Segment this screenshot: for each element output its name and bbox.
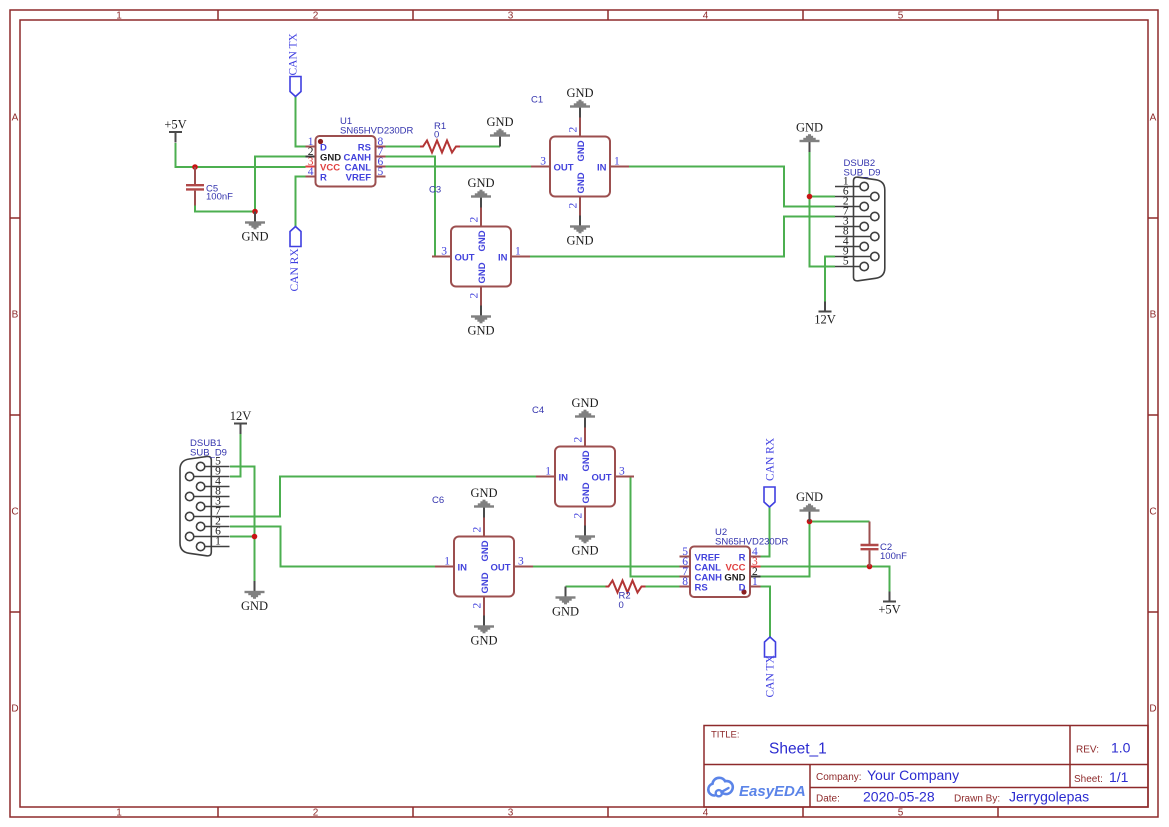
svg-text:Sheet:: Sheet: [1074,774,1103,785]
wire U1 pin 2 GND net [255,157,306,212]
ground at R1 [486,115,513,147]
sheet cell [1074,769,1129,785]
connector DSUB1 SUB_D9 [180,456,230,555]
svg-text:CAN RX: CAN RX [765,437,777,481]
filter C3 body [432,208,530,306]
svg-text:5: 5 [378,166,384,178]
svg-text:3: 3 [508,11,514,22]
wire C5 to ground node [195,205,255,212]
svg-text:D: D [1149,704,1156,715]
svg-text:GND: GND [571,544,598,558]
svg-text:0: 0 [619,600,624,611]
svg-text:4: 4 [308,166,314,178]
svg-text:100nF: 100nF [880,551,907,562]
net port CAN TX [288,33,302,97]
svg-text:GND: GND [470,634,497,648]
svg-text:2: 2 [568,127,580,133]
power +5V top [164,118,186,143]
svg-text:Your Company: Your Company [867,767,959,783]
svg-text:1: 1 [116,808,122,819]
svg-text:IN: IN [597,163,607,174]
svg-text:2: 2 [469,293,481,299]
svg-text:OUT: OUT [554,163,574,174]
svg-text:Date:: Date: [816,794,840,805]
U2 pin numbers [682,546,758,588]
ground at C4 pin 2 top [571,396,598,428]
wire DSUB1 pin 6 branch [230,536,255,538]
wire U2 pin 1 D to CAN TX [761,587,771,638]
wire U2 pin 4 R to CAN RX [761,507,770,557]
wire DSUB2 pin 6 branch [810,196,836,198]
U1 pin numbers [308,136,384,178]
svg-text:2: 2 [313,11,319,22]
svg-text:CAN RX: CAN RX [289,248,301,292]
ground at C1 pin 2 top [566,86,593,118]
wire ground net to DSUB2 pins 6 and 5 [810,152,836,267]
rev text [1076,740,1131,756]
capacitor C5 [186,167,204,206]
svg-text:1: 1 [215,536,221,548]
svg-text:4: 4 [703,808,709,819]
wire U2 pin 3 VCC to +5V [761,567,890,592]
svg-text:OUT: OUT [490,563,510,574]
company row [816,767,959,783]
transceiver U1 SN65HVD230DR [306,136,386,187]
svg-text:+5V: +5V [164,118,186,132]
svg-text:3: 3 [441,246,447,258]
junction DSUB1 pin 6 / ground [252,534,258,540]
svg-text:GND: GND [477,262,488,283]
ground at C5 [241,212,268,244]
svg-text:RS: RS [695,583,708,594]
resistor R2 [606,581,646,593]
svg-text:R: R [320,173,327,184]
svg-text:C4: C4 [532,405,544,416]
svg-text:GND: GND [576,140,587,161]
ground at C3 pin 2 bottom [467,306,494,338]
ground at C6 pin 2 top [470,486,497,518]
ground at C3 pin 2 top [467,176,494,208]
ground at C4 pin 2 bottom [571,526,598,558]
svg-text:GND: GND [552,605,579,619]
svg-text:IN: IN [498,253,508,264]
svg-text:2: 2 [472,527,484,533]
junction ground / C2 top [807,519,813,525]
svg-text:GND: GND [467,324,494,338]
filter C4 body [536,428,634,526]
svg-text:5: 5 [898,808,904,819]
DSUB1 pin numbers [215,456,221,548]
wire R2 to U2 RS [646,586,680,588]
svg-text:1: 1 [444,556,450,568]
svg-text:5: 5 [843,256,849,268]
wire C6 OUT to U2 CANL [533,566,680,568]
svg-text:2: 2 [568,203,580,209]
svg-text:2: 2 [469,217,481,223]
junction GND/DSUB2 pin 6 [807,194,813,200]
svg-text:EasyEDA: EasyEDA [739,783,806,800]
svg-text:GND: GND [480,572,491,593]
capacitor C2 [861,522,879,567]
ground at R2 [552,587,579,619]
wire ground to R2 [566,586,606,588]
value label R1 0 [434,121,446,141]
svg-text:C3: C3 [429,185,441,196]
junction VCC / C2 bottom [867,564,873,570]
wire C3 IN to DSUB2 pin 7 [530,217,835,257]
wire U2 pin 2 GND net [761,522,810,577]
ground at U2/C2 [796,490,823,522]
svg-text:C: C [11,507,18,518]
svg-text:A: A [12,113,19,124]
value label C2 100nF [880,542,907,562]
wire U1 CANH to C3 OUT [386,157,438,257]
svg-text:C: C [1149,507,1156,518]
wire U1 CANL to C1 OUT [386,166,532,168]
svg-text:Drawn By:: Drawn By: [954,794,1000,805]
junction +5V/C5/VCC [192,164,198,170]
ground at C6 pin 2 bottom [470,616,497,648]
svg-text:GND: GND [581,450,592,471]
connector DSUB2 SUB_D9 [835,177,885,281]
svg-text:GND: GND [486,115,513,129]
svg-text:SUB_D9: SUB_D9 [844,168,881,179]
svg-text:2: 2 [472,603,484,609]
svg-text:5: 5 [898,11,904,22]
net port CAN RX bottom [764,437,777,507]
svg-text:3: 3 [508,808,514,819]
svg-text:SUB_D9: SUB_D9 [190,448,227,459]
wire ground branch to C2 [810,521,870,523]
U1 reference labels [340,116,414,137]
svg-text:B: B [12,310,19,321]
wire CAN RX to U1 pin 4 [296,177,306,227]
net port CAN RX [289,227,301,292]
wire DSUB1 pin 5 to ground net [230,467,255,582]
svg-text:SN65HVD230DR: SN65HVD230DR [340,126,414,137]
svg-text:GND: GND [796,490,823,504]
svg-text:2: 2 [313,808,319,819]
svg-text:1: 1 [614,156,620,168]
svg-text:1.0: 1.0 [1111,740,1131,756]
svg-text:CAN TX: CAN TX [765,655,777,698]
svg-text:C1: C1 [531,95,543,106]
svg-text:GND: GND [566,234,593,248]
date row [816,789,1089,805]
svg-text:TITLE:: TITLE: [711,730,740,741]
EasyEDA logo [708,778,805,800]
svg-text:100nF: 100nF [206,192,233,203]
ground at DSUB1 [241,581,268,613]
power 12V at DSUB2 pin 9 [814,302,836,327]
svg-text:IN: IN [559,473,569,484]
svg-text:OUT: OUT [591,473,611,484]
svg-text:REV:: REV: [1076,745,1099,756]
svg-text:4: 4 [703,11,709,22]
svg-text:3: 3 [619,466,625,478]
svg-text:C6: C6 [432,495,444,506]
wire C4 OUT to U2 CANH [631,477,680,577]
U2 reference labels [715,527,789,548]
svg-text:Sheet_1: Sheet_1 [769,741,827,758]
svg-text:GND: GND [566,86,593,100]
svg-text:B: B [1150,310,1157,321]
svg-text:0: 0 [434,130,439,141]
svg-text:IN: IN [458,563,468,574]
svg-text:GND: GND [581,482,592,503]
wire DSUB1 pin 2 to C6 IN [230,527,436,567]
power +5V bottom [878,592,900,617]
svg-text:2: 2 [573,513,585,519]
resistor R1 [420,141,460,153]
svg-text:OUT: OUT [455,253,475,264]
svg-text:3: 3 [518,556,524,568]
wire DSUB2 pin 9 to 12V [825,257,835,302]
svg-text:D: D [11,704,18,715]
value label R2 0 [619,591,631,612]
svg-text:GND: GND [470,486,497,500]
filter C6 body [435,518,533,616]
junction C5/GND [252,209,258,215]
svg-text:VREF: VREF [346,173,372,184]
svg-text:1: 1 [116,11,122,22]
svg-text:1: 1 [515,246,521,258]
title block [704,726,1148,808]
wire R1 to ground [460,146,500,148]
svg-text:GND: GND [467,176,494,190]
wire +5V to U1 pin 3 VCC [176,143,306,167]
svg-text:2020-05-28: 2020-05-28 [863,789,935,805]
DSUB2 pin numbers [843,176,849,268]
svg-text:1/1: 1/1 [1109,769,1129,785]
svg-text:GND: GND [571,396,598,410]
DSUB1 reference labels [190,438,227,459]
ground at C1 pin 2 bottom [566,216,593,248]
power 12V at DSUB1 [230,409,252,434]
svg-text:GND: GND [241,230,268,244]
svg-text:CAN TX: CAN TX [288,33,300,76]
title text [711,730,827,758]
svg-text:2: 2 [573,437,585,443]
wire C1 IN to DSUB2 pin 2 [629,167,835,207]
ground net DSUB2 [796,121,823,153]
transceiver U2 SN65HVD230DR [680,547,761,598]
svg-text:12V: 12V [814,313,836,327]
svg-text:1: 1 [752,576,758,588]
wire CAN TX to U1 pin 1 [296,97,306,147]
svg-text:3: 3 [540,156,546,168]
wire DSUB1 pin 9 to 12V [230,434,241,477]
svg-text:D: D [739,583,746,594]
svg-text:GND: GND [480,540,491,561]
DSUB2 reference labels [844,158,881,179]
svg-text:Company:: Company: [816,772,862,783]
svg-text:12V: 12V [230,409,252,423]
svg-text:GND: GND [796,121,823,135]
svg-text:GND: GND [241,599,268,613]
svg-text:Jerrygolepas: Jerrygolepas [1009,789,1089,805]
svg-text:GND: GND [576,172,587,193]
svg-text:1: 1 [545,466,551,478]
wire DSUB1 pin 7 to C4 IN [230,477,536,517]
svg-text:A: A [1150,113,1157,124]
value label C5 100nF [206,184,233,203]
wire U1 pin 8 RS to R1 [386,146,421,148]
svg-text:GND: GND [477,230,488,251]
svg-text:8: 8 [682,576,688,588]
net port CAN TX bottom [765,637,777,698]
filter C1 body [531,118,629,216]
svg-text:SN65HVD230DR: SN65HVD230DR [715,537,789,548]
svg-text:+5V: +5V [878,603,900,617]
